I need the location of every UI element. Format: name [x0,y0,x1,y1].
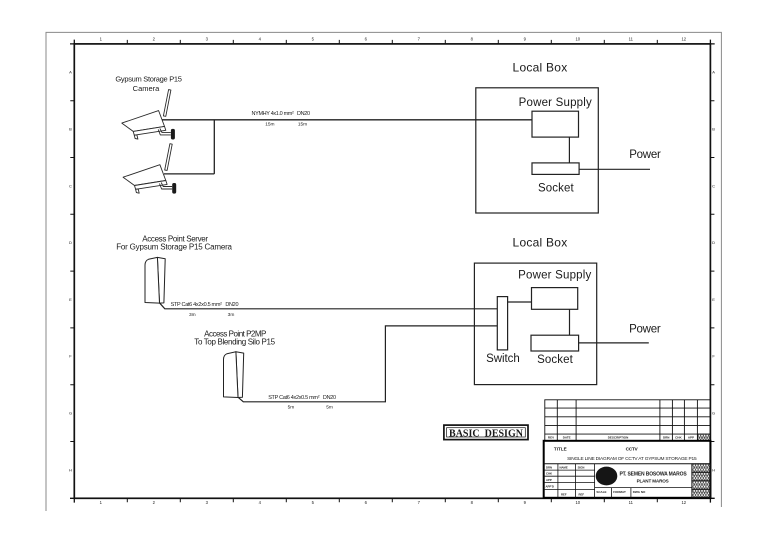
wire power supply to socket top [568,137,570,163]
svg-text:2: 2 [153,37,156,42]
svg-text:Local Box: Local Box [513,60,568,74]
svg-text:NAME: NAME [560,466,568,470]
svg-text:BASIC DESIGN: BASIC DESIGN [449,429,524,440]
socket box bottom [531,335,579,351]
title section divider [544,463,711,465]
camera CAM2 [123,144,172,194]
camera CAM1 mount plate [171,129,175,140]
svg-text:DESCRIPTION: DESCRIPTION [608,436,629,440]
outer sheet border [46,32,721,511]
svg-text:REV: REV [548,436,554,440]
svg-text:5: 5 [312,500,315,505]
svg-text:8: 8 [471,37,474,42]
svg-text:C: C [69,183,72,188]
svg-text:PT. SEMEN BOSOWA MAROS: PT. SEMEN BOSOWA MAROS [619,472,687,478]
svg-text:CHK: CHK [675,436,682,440]
svg-text:5m: 5m [326,405,333,411]
svg-text:Power Supply: Power Supply [519,97,592,109]
svg-text:Power: Power [629,324,661,336]
svg-text:STP Cat6 4x2x0.5 mm² DN20: STP Cat6 4x2x0.5 mm² DN20 [268,395,336,401]
svg-text:12: 12 [681,500,686,505]
svg-text:3m: 3m [228,312,235,318]
svg-text:DWG NO: DWG NO [633,490,646,494]
svg-text:B: B [712,127,715,132]
svg-text:A: A [69,70,72,75]
svg-text:Gypsum Storage P15: Gypsum Storage P15 [115,74,181,83]
svg-text:3m: 3m [189,312,196,318]
svg-text:APP: APP [688,436,694,440]
title block main border [544,441,711,498]
svg-text:STP Cat6 4x2x0.5 mm² DN20: STP Cat6 4x2x0.5 mm² DN20 [171,302,239,308]
camera CAM2 mount plate [172,183,176,194]
title block signature table [544,464,595,498]
svg-text:8: 8 [471,500,474,505]
camera CAM1 [122,90,171,140]
revision table headers [548,436,694,440]
svg-text:7: 7 [418,500,421,505]
drawing frame [74,44,710,498]
access point AP1 [145,257,165,303]
ruler ticks bottom [127,498,657,502]
svg-text:TITLE: TITLE [554,446,567,451]
wire switch to power supply [508,301,532,303]
svg-text:11: 11 [629,500,634,505]
svg-text:DATE: DATE [563,436,571,440]
svg-text:2: 2 [153,500,156,505]
svg-text:12: 12 [681,37,686,42]
svg-text:D: D [712,240,715,245]
ruler ticks top [127,40,657,44]
svg-text:5: 5 [312,37,315,42]
ruler letters left [69,70,72,473]
svg-text:4: 4 [259,37,262,42]
wire AP2 to switch [238,326,497,402]
svg-text:4: 4 [259,500,262,505]
cable length 15m 15m [265,121,307,127]
svg-text:C: C [712,183,715,188]
svg-text:SCALE: SCALE [596,490,606,494]
svg-text:1: 1 [100,37,103,42]
ruler numbers top [100,37,687,42]
svg-text:3: 3 [206,37,209,42]
svg-text:FORMAT: FORMAT [613,490,626,494]
svg-text:PLANT MAROS: PLANT MAROS [637,478,669,483]
svg-text:15m: 15m [298,121,307,127]
wire socket to power top [579,168,650,170]
ruler letters right [712,70,715,473]
svg-text:15m: 15m [265,121,274,127]
wire camera1 to power supply [162,119,532,121]
local box top enclosure [476,88,599,213]
power supply box bottom [532,288,578,310]
svg-text:DRN: DRN [546,466,552,470]
svg-text:Switch: Switch [486,353,520,365]
svg-text:Socket: Socket [538,183,574,195]
signature table texts [546,466,585,497]
svg-text:Power: Power [629,149,661,161]
svg-text:A: A [712,70,715,75]
svg-text:CHK: CHK [546,472,552,476]
label Access Point P2MP [194,329,275,346]
svg-text:H: H [69,467,72,472]
wire AP1 to switch [160,303,498,309]
svg-text:G: G [712,411,715,416]
cable length 5m 5m [288,405,333,411]
svg-text:F: F [712,354,715,359]
svg-text:SINGLE LINE DIAGRAM OF CCTV AT: SINGLE LINE DIAGRAM OF CCTV AT GYPSUM ST… [567,456,697,462]
ruler numbers bottom [100,500,687,505]
access point AP2 [224,352,244,398]
scale format dwg row [595,488,692,498]
svg-text:5m: 5m [288,405,295,411]
local box bottom enclosure [474,263,596,385]
svg-text:APP: APP [546,478,552,482]
hatch column [692,464,711,498]
svg-text:DRN: DRN [663,436,670,440]
svg-text:9: 9 [524,37,527,42]
svg-text:Power Supply: Power Supply [518,270,591,282]
revision table hatch cell [697,434,710,441]
svg-text:Camera: Camera [133,84,161,93]
wire camera riser [213,120,215,174]
svg-text:7: 7 [418,37,421,42]
power supply box top [532,111,579,137]
socket box top [532,163,579,175]
wire socket to power bottom [579,342,649,344]
svg-text:NYMHY 4x1.0 mm² DN20: NYMHY 4x1.0 mm² DN20 [252,111,311,117]
svg-text:REF: REF [579,492,585,496]
cable length 3m 3m [189,312,234,318]
company logo [596,467,618,486]
svg-text:D: D [69,240,72,245]
svg-text:Socket: Socket [537,354,573,366]
stamp BASIC DESIGN [444,425,528,440]
svg-text:10: 10 [575,500,580,505]
label Access Point Server [116,235,232,252]
frame corner extensions [70,40,715,503]
svg-text:11: 11 [629,37,634,42]
svg-text:B: B [69,127,72,132]
svg-text:G: G [69,411,72,416]
label Gypsum Storage P15 Camera [115,74,181,93]
svg-text:9: 9 [524,500,527,505]
wire camera2 horizontal [164,173,214,175]
svg-text:10: 10 [575,37,580,42]
wire power supply to socket bottom [569,309,571,335]
revision table [545,400,711,441]
svg-text:APP'D: APP'D [546,484,554,488]
svg-text:E: E [69,297,72,302]
ruler ticks left [70,101,74,442]
svg-text:F: F [69,354,72,359]
svg-text:CCTV: CCTV [626,447,639,453]
ruler ticks right [710,101,714,442]
switch box [497,297,507,350]
svg-text:REF: REF [561,492,567,496]
svg-text:6: 6 [365,37,368,42]
svg-text:For Gypsum Storage P15 Camera: For Gypsum Storage P15 Camera [116,242,232,251]
svg-text:SIGN: SIGN [578,466,585,470]
svg-text:To Top Blending Silo P15: To Top Blending Silo P15 [194,338,275,347]
svg-text:1: 1 [100,500,103,505]
svg-text:H: H [712,467,715,472]
svg-text:E: E [712,297,715,302]
svg-text:Local Box: Local Box [513,236,568,250]
svg-text:3: 3 [206,500,209,505]
svg-text:6: 6 [365,500,368,505]
